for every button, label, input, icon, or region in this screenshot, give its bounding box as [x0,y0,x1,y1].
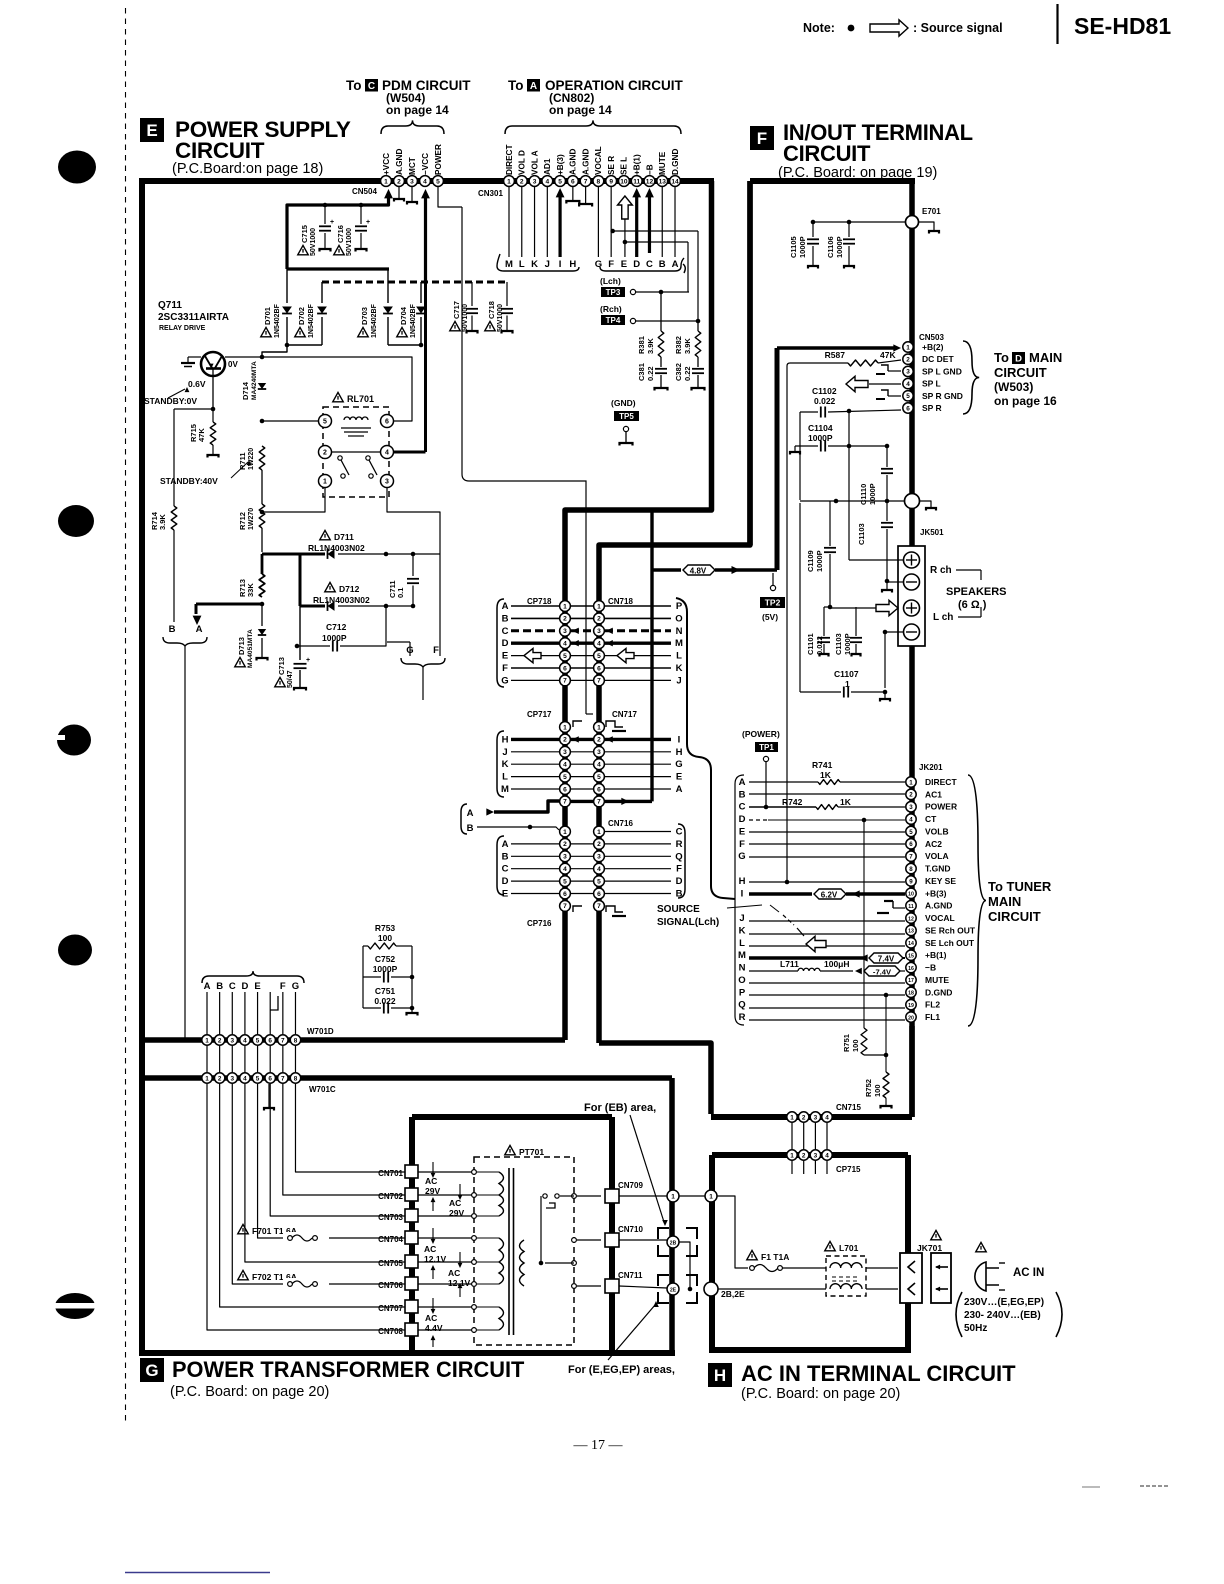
transformer secondary winding 2 [418,1238,504,1286]
JK201 row K wire [749,933,905,935]
svg-text:3: 3 [597,628,601,635]
capacitor C751 [363,986,414,1014]
svg-text:A: A [676,784,683,795]
svg-text:2: 2 [597,841,601,848]
svg-text:5: 5 [909,829,913,836]
svg-text:To: To [994,350,1009,365]
svg-text:SIGNAL(Lch): SIGNAL(Lch) [657,917,719,928]
svg-text:5: 5 [597,774,601,781]
svg-text:RL701: RL701 [347,394,374,404]
svg-text:L: L [739,938,745,949]
diode D703 [358,269,393,345]
stray mark bottom right [1082,1486,1100,1488]
svg-text:6: 6 [563,786,567,793]
wire relay rail top [260,355,412,421]
svg-text:SP R GND: SP R GND [922,391,963,401]
svg-text:C: C [676,827,683,838]
svg-text:CN717: CN717 [612,710,637,719]
svg-text:D: D [241,981,248,992]
svg-text:DIRECT: DIRECT [925,777,957,787]
svg-text:2: 2 [563,616,567,623]
svg-text:100μH: 100μH [824,959,850,969]
CN503 pin3 hook ground [876,365,901,374]
brace over CN504 [381,120,444,134]
JK201 pin11 A.GND ground [877,901,905,913]
svg-text:CIRCUIT: CIRCUIT [988,909,1041,924]
CN301 harness bracket [497,254,579,271]
svg-text:3: 3 [906,369,910,376]
wire D711 to D712 bold [299,554,302,606]
test point TP5 [611,398,639,446]
relay RL701 coil [341,417,371,436]
svg-text:A.GND: A.GND [581,149,590,175]
svg-text:−B: −B [925,963,936,973]
svg-text:J: J [502,747,507,758]
svg-text:CIRCUIT: CIRCUIT [175,138,265,163]
svg-text:D.GND: D.GND [671,149,680,175]
JK501 terminal R- [904,574,920,590]
wire E701 left [813,221,905,223]
svg-text:7: 7 [281,1075,285,1082]
primary wires to CN709-711 [545,1196,601,1286]
svg-text:2E: 2E [670,1287,677,1293]
svg-text:SOURCE: SOURCE [657,904,700,915]
svg-text:G: G [501,675,508,686]
svg-text:14: 14 [671,178,679,185]
svg-text:11: 11 [633,178,640,185]
JK201 row H KEY SE wire [749,880,905,885]
svg-text:7: 7 [909,854,913,861]
svg-text:L ch: L ch [933,612,953,623]
svg-text:J: J [739,913,744,924]
svg-text:To: To [346,78,362,93]
svg-text:1: 1 [790,1114,794,1121]
resistor R711 [238,446,265,470]
wire relay pin2 to -VCC [332,282,426,452]
svg-text:K: K [531,259,538,270]
svg-text:50V1000: 50V1000 [346,228,353,256]
section marker H [708,1363,732,1387]
JK201 harness bracket [735,775,744,1025]
svg-text:MAIN: MAIN [1029,350,1062,365]
svg-text:D713: D713 [237,637,246,655]
harness lugs G F [401,645,445,667]
svg-text:100: 100 [378,933,392,943]
svg-text:A: A [502,839,509,850]
svg-text:G: G [145,1361,158,1380]
connector CN709 [605,1181,643,1203]
svg-text:2: 2 [563,737,567,744]
connector CP716 [527,826,570,928]
svg-text:C718: C718 [487,301,496,319]
wire C1102 C1104 join [848,411,850,446]
SOURCE SIGNAL note [657,904,762,928]
brace over CN301 [505,120,681,134]
svg-text:CN710: CN710 [618,1225,643,1234]
svg-text:1: 1 [597,829,601,836]
svg-text:D714: D714 [241,381,250,400]
CN717 letters I-A [675,734,682,795]
svg-text:P: P [739,987,746,998]
svg-text:4: 4 [563,866,567,873]
JK501 terminal R+ [904,552,920,568]
svg-text:5: 5 [256,1037,260,1044]
svg-text:4: 4 [563,762,567,769]
transistor Q711 [201,352,225,409]
svg-text:+B(1): +B(1) [633,154,642,175]
connector CN716 [594,819,634,911]
svg-text:R711: R711 [238,452,247,470]
svg-text:SE Lch OUT: SE Lch OUT [925,938,975,948]
voltage selector switch [539,1194,574,1265]
svg-text:CN718: CN718 [608,597,633,606]
svg-text:3.9K: 3.9K [646,338,655,354]
connector CN503 [903,333,945,413]
diode D712 [300,582,415,610]
capacitor C1104 [790,423,889,455]
CN301 pin 6 ground [566,187,579,204]
svg-text:POWER: POWER [434,144,443,175]
svg-text:CN704: CN704 [378,1235,403,1244]
svg-text:D: D [502,638,509,649]
svg-text:13: 13 [659,178,667,185]
svg-text:G: G [292,981,299,992]
svg-text:R381: R381 [637,336,646,354]
capacitor C715 [298,205,334,256]
svg-text:2: 2 [597,616,601,623]
svg-text:D: D [739,814,746,825]
bus JK201 to CN715 [909,1026,915,1117]
svg-text:E: E [146,121,157,140]
svg-text:50Hz: 50Hz [964,1323,987,1334]
svg-text:8: 8 [294,1037,298,1044]
svg-text:10: 10 [908,892,914,898]
capacitor C381 [637,357,668,391]
svg-text:F: F [502,663,508,674]
svg-text:3: 3 [230,1075,234,1082]
capacitor C711 [388,554,419,606]
svg-text:AC: AC [448,1268,460,1278]
svg-text:D: D [1015,353,1022,364]
JK201 row M +B(1) source wire [749,953,905,964]
svg-text:C1109: C1109 [806,550,815,572]
svg-text:29V: 29V [449,1208,464,1218]
svg-text:5: 5 [906,393,910,400]
svg-text:F: F [433,645,439,656]
svg-text:14: 14 [908,941,914,947]
relay pin 4 [381,446,394,459]
svg-text:C713: C713 [277,657,286,675]
wire harness B A down [184,646,186,1038]
source signal dashed arrow [770,905,826,952]
svg-text:AC2: AC2 [925,839,942,849]
svg-text:2: 2 [563,841,567,848]
CN301 pin 9 wire to TP4 rail [610,187,698,257]
svg-text:1: 1 [597,603,601,610]
svg-text:8: 8 [294,1075,298,1082]
connector JK201 [906,763,943,1022]
svg-text:O: O [738,975,745,986]
svg-text:0.22: 0.22 [646,366,655,381]
svg-text:2: 2 [323,449,327,456]
resistor R713 [238,554,265,597]
svg-text:E: E [254,981,260,992]
svg-text:5: 5 [563,878,567,885]
CP718 letters A-G [501,601,508,686]
svg-text:5: 5 [597,653,601,660]
svg-text:-7.4V: -7.4V [873,968,892,977]
CN718 letter bracket right continues to JK201 bracket [676,598,735,899]
relay contact right [366,456,377,478]
JK201 row B wire [749,793,905,795]
svg-text:3: 3 [597,749,601,756]
svg-text:To: To [508,78,524,93]
svg-text:1: 1 [563,724,567,731]
terminal E701 [906,207,942,229]
svg-text:AC: AC [424,1244,436,1254]
AC 29V arrows and labels [425,1162,464,1218]
wire relay pin5 feed [260,419,318,424]
svg-text:1000P: 1000P [815,550,824,572]
svg-text:(Rch): (Rch) [600,304,622,314]
svg-text:M: M [501,784,509,795]
svg-text:L: L [502,772,508,783]
svg-text:CN708: CN708 [378,1327,403,1336]
CP717 letters H-M [501,734,509,795]
capacitor C1102 [800,386,901,418]
svg-text:4: 4 [243,1075,247,1082]
svg-text:SPEAKERS: SPEAKERS [946,586,1007,598]
CN504 pin labels [382,144,443,175]
svg-text:C751: C751 [375,986,396,996]
svg-text:G: G [675,759,682,770]
svg-text:B: B [502,851,509,862]
svg-text:6: 6 [906,405,910,412]
svg-text:MA4051MTA: MA4051MTA [247,629,254,668]
svg-text:P: P [676,601,683,612]
relay contact left [338,456,349,478]
svg-text:POWER: POWER [925,802,957,812]
connector CN711 [605,1271,643,1293]
svg-text:2: 2 [218,1037,222,1044]
CN301 pin 13 wire [661,187,663,257]
speaker channel brackets [922,552,981,580]
JK201 row P D.GND wire [749,993,905,998]
svg-text:4: 4 [825,1152,829,1159]
section H title [741,1361,1016,1402]
svg-text:W701C: W701C [309,1085,336,1094]
svg-text:CN703: CN703 [378,1213,403,1222]
svg-text:: Source signal: : Source signal [913,21,1003,35]
svg-text:L: L [676,651,682,662]
svg-text:RL1N4003N02: RL1N4003N02 [313,595,370,605]
svg-text:Q: Q [675,851,682,862]
W701C hook stub [270,996,278,1010]
svg-text:C: C [502,626,509,637]
CP716 letters A-E [502,839,509,900]
CN504 pin 2 ground [394,187,404,202]
svg-text:6: 6 [597,665,601,672]
svg-text:230V…(E,EG,EP): 230V…(E,EG,EP) [964,1297,1044,1308]
svg-text:4: 4 [545,178,549,185]
svg-text:VOCAL: VOCAL [594,146,603,175]
svg-text:D: D [502,876,509,887]
svg-text:F: F [608,259,614,270]
svg-text:R742: R742 [782,797,803,807]
svg-text:N: N [739,963,746,974]
AC 12.1V arrows and labels [424,1228,471,1297]
svg-text:+: + [306,657,310,664]
svg-text:1: 1 [790,1152,794,1159]
svg-text:C381: C381 [637,363,646,381]
svg-text:0.1: 0.1 [396,588,405,598]
svg-text:16: 16 [908,966,914,972]
svg-text:+B(2): +B(2) [922,342,944,352]
CN716 letters C-B [675,827,682,900]
svg-text:TP2: TP2 [765,598,781,608]
-VCC dashed rail [322,281,507,284]
svg-text:1: 1 [671,1193,675,1200]
svg-text:CN301: CN301 [478,189,503,198]
svg-text:C715: C715 [300,225,309,243]
relay pin 2 [319,446,332,459]
svg-text:C1105: C1105 [789,236,798,258]
svg-text:4: 4 [909,816,913,823]
JK201 row J VOCAL wire [749,920,905,922]
svg-text:R ch: R ch [930,565,952,576]
CP716 row7 stub hooks [573,906,626,916]
connector CN701 [378,1165,418,1178]
diode D714 [241,361,266,400]
svg-text:+B(3): +B(3) [556,154,565,175]
W701C ground stub [264,1084,274,1111]
svg-text:CN701: CN701 [378,1169,403,1178]
svg-text:2: 2 [597,737,601,744]
svg-text:4: 4 [825,1114,829,1121]
R753 cluster side rails [363,946,418,1016]
For EB area note [584,1102,668,1226]
AC plug [955,1242,1005,1291]
svg-text:C1101: C1101 [806,633,815,655]
capacitor C1106 [826,220,855,269]
svg-text:CN716: CN716 [608,819,633,828]
svg-text:DC DET: DC DET [922,354,954,364]
section F frame [750,181,915,545]
svg-text:1K: 1K [840,797,852,807]
svg-text:CIRCUIT: CIRCUIT [994,365,1047,380]
svg-text:47K: 47K [880,350,896,360]
svg-text:K: K [739,925,746,936]
svg-text:2SC3311AIRTA: 2SC3311AIRTA [158,312,229,323]
svg-text:4: 4 [597,762,601,769]
svg-text:Q711: Q711 [158,300,182,311]
svg-text:SE Rch OUT: SE Rch OUT [925,925,976,935]
section G frame left edge bottom [139,1078,145,1356]
harness lugs B A [163,624,207,646]
svg-text:7: 7 [563,799,567,806]
svg-text:C: C [739,802,746,813]
svg-text:CN504: CN504 [352,187,377,196]
svg-text:5: 5 [436,178,440,185]
svg-text:50/47: 50/47 [287,670,294,688]
svg-text:on page 14: on page 14 [549,103,612,117]
svg-text:I: I [678,734,681,745]
svg-text:7: 7 [563,678,567,685]
rectifier output rail [262,343,423,358]
svg-text:C1110: C1110 [859,484,868,505]
standby 40V note [160,460,251,486]
wire A feed bold [193,602,265,625]
svg-text:TP3: TP3 [606,288,621,297]
svg-text:(5V): (5V) [762,612,778,622]
capacitor C1109 [806,501,836,609]
svg-text:For (E,EG,EP) areas,: For (E,EG,EP) areas, [568,1364,675,1376]
svg-text:E: E [502,889,508,900]
svg-text:VOL A: VOL A [530,150,539,175]
capacitor C1103 upper [857,501,893,583]
svg-text:7: 7 [597,678,601,685]
bus W701C [142,1078,672,1094]
section marker G [140,1358,164,1382]
svg-text:SE-HD81: SE-HD81 [1074,13,1171,39]
resistor R753 [363,923,412,949]
svg-text:6: 6 [571,178,575,185]
CN716 row wires [511,832,671,894]
connector CN707 [378,1300,418,1313]
svg-text:C1103: C1103 [857,523,866,545]
svg-text:E: E [621,259,627,270]
svg-text:19: 19 [908,1003,914,1009]
wire TP4 to R382 [636,231,700,323]
capacitor C718 [485,282,513,334]
svg-text:C: C [502,864,509,875]
JK201 row R FL1 wire [749,1019,905,1021]
svg-text:D: D [633,259,640,270]
svg-text:CN705: CN705 [378,1259,403,1268]
svg-text:18: 18 [908,991,914,997]
wire L+ source arrow [830,600,898,615]
svg-text:3: 3 [230,1037,234,1044]
svg-text:AC IN TERMINAL CIRCUIT: AC IN TERMINAL CIRCUIT [741,1361,1016,1386]
svg-text:D703: D703 [360,307,369,325]
AC voltage note [956,1292,1062,1337]
CP718 row wires [511,606,671,680]
svg-text:6: 6 [563,665,567,672]
svg-text:+B(1): +B(1) [925,950,947,960]
resistor R741 [749,760,905,784]
CN503 pin4 source arrow [841,372,901,392]
capacitor C712 [295,606,386,652]
svg-text:F: F [757,129,767,148]
capacitor C713 [275,606,310,691]
F mid left rail [799,412,801,500]
CN504 pin 5 POWER wire [438,187,593,714]
svg-text:MUTE: MUTE [658,151,667,175]
svg-text:0.022: 0.022 [374,996,396,1006]
svg-text:(POWER): (POWER) [742,729,780,739]
page margin dashed rule [125,8,127,1422]
connector CN715 [787,1103,862,1122]
svg-text:1: 1 [205,1075,209,1082]
svg-text:R753: R753 [375,923,396,933]
wire CT sense vertical [863,820,865,1028]
svg-text:B: B [467,823,474,834]
To D MAIN CIRCUIT note [963,341,1062,414]
svg-text:G: G [738,851,745,862]
svg-text:R587: R587 [825,350,846,360]
wire between area circles [679,1195,705,1197]
harness lugs A B to CP717 [461,804,474,834]
